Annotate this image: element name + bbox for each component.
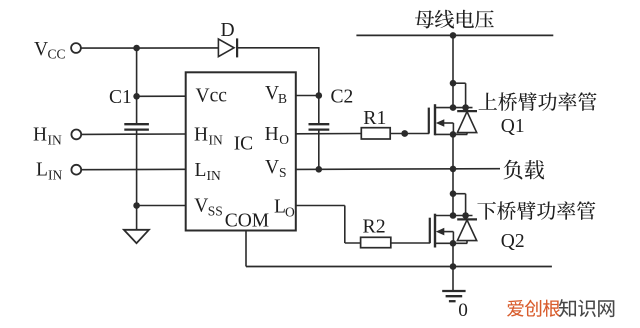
svg-text:R2: R2 (363, 215, 386, 237)
svg-text:L: L (195, 160, 207, 181)
svg-text:H: H (33, 125, 47, 146)
svg-text:R1: R1 (363, 107, 386, 129)
svg-text:V: V (265, 157, 279, 178)
svg-text:L: L (36, 160, 48, 181)
wire IC COM pin to ground rail (245, 231, 247, 267)
wire Q2 body-diode branch (453, 194, 466, 220)
label D (221, 20, 235, 41)
svg-text:IN: IN (209, 133, 223, 148)
svg-text:D: D (221, 20, 235, 41)
svg-text:H: H (265, 124, 279, 145)
label C1 (109, 87, 132, 108)
wire Q2 source to ground rail (452, 243, 454, 266)
wire IC VS pin to load (296, 168, 500, 171)
svg-text:IN: IN (207, 168, 221, 183)
wire C2 down to VS line (318, 130, 320, 170)
junction bus / Q1 drain (450, 32, 457, 39)
wire VB node down to C2 (318, 96, 320, 125)
wire VSS node to ground (136, 206, 138, 230)
terminal VCC (71, 43, 81, 53)
svg-text:O: O (285, 205, 295, 220)
pin label VSS (194, 196, 223, 219)
wire VSS node to IC (137, 205, 187, 207)
ground signal (triangle) (124, 230, 149, 243)
label C2 (331, 87, 354, 108)
wire bus to Q1 drain (452, 35, 454, 107)
pin label HO (265, 124, 290, 147)
label Q1 (501, 116, 525, 137)
svg-text:O: O (279, 132, 289, 147)
transistor Q1 (429, 104, 473, 135)
junction ground rail / Q2 source (450, 263, 457, 270)
svg-text:0: 0 (458, 300, 468, 321)
junction Q2 diode cathode node (462, 212, 469, 219)
label R1 (363, 107, 386, 129)
svg-text:V: V (265, 83, 279, 104)
pin label LO (274, 197, 295, 220)
pin label VS (265, 157, 287, 180)
wire HIN to IC (81, 133, 186, 135)
body diode of Q2 (457, 219, 477, 243)
junction Q1 source node (450, 131, 457, 138)
wire Q1 body-diode branch (453, 83, 466, 111)
svg-text:Vcc: Vcc (196, 85, 228, 106)
wire C1 down to VSS node (136, 130, 138, 206)
op-amp/driver IC body (186, 72, 296, 230)
svg-text:Q1: Q1 (501, 116, 525, 137)
pin label HIN (194, 125, 223, 148)
svg-text:IN: IN (48, 168, 62, 183)
svg-text:V: V (34, 39, 48, 60)
svg-text:CC: CC (48, 46, 66, 61)
wire R1 to Q1 gate (390, 133, 429, 135)
watermark aichuanggen (507, 300, 560, 317)
svg-text:IC: IC (234, 134, 254, 155)
junction R1 output node (401, 130, 408, 137)
junction Q1 diode cathode node (462, 104, 469, 111)
svg-text:Q2: Q2 (501, 231, 525, 252)
label bus voltage (415, 10, 494, 29)
wire IC LO pin to R2 (296, 206, 361, 244)
terminal HIN (71, 130, 81, 140)
wire rail to earth ground (452, 267, 454, 291)
wire DC bus (356, 34, 553, 36)
junction C1/Vcc pin node (133, 93, 140, 100)
wire VS to Q2 drain (452, 169, 454, 216)
wire R2 to Q2 gate (391, 242, 430, 244)
junction VS/half-bridge midpoint (450, 166, 457, 173)
svg-text:IN: IN (48, 133, 62, 148)
label VCC terminal (34, 39, 66, 61)
label R2 (363, 215, 386, 237)
body diode of Q1 (457, 111, 477, 134)
capacitor C1 (124, 124, 149, 129)
junction Q1 drain/body-diode branch (450, 80, 457, 87)
svg-text:B: B (278, 91, 287, 106)
watermark zhishiwang (559, 299, 615, 317)
wire ground rail (246, 266, 552, 268)
label Q1 transistor name (479, 92, 597, 111)
svg-text:SS: SS (208, 204, 223, 219)
pin label VB (265, 83, 287, 106)
junction Q1 drain node (450, 104, 457, 111)
label Q2 transistor name (477, 201, 595, 220)
junction Q2 drain node (450, 212, 457, 219)
wire diode cathode to VB node (237, 47, 319, 96)
resistor R2 (361, 237, 391, 247)
junction Q2 drain/body-diode branch (450, 190, 457, 197)
wire IC VB pin to bootstrap node (296, 95, 319, 97)
wire Q1 source to VS line (452, 134, 454, 169)
label HIN terminal (33, 125, 62, 148)
wire IC HO pin to R1 (296, 133, 362, 135)
junction Q2 source node (450, 240, 457, 247)
junction VSS node (133, 202, 140, 209)
svg-text:S: S (279, 165, 287, 180)
junction VB/C2 node (316, 92, 323, 99)
svg-text:COM: COM (225, 211, 269, 232)
svg-text:C1: C1 (109, 87, 132, 108)
wire VCC to diode anode (81, 47, 218, 49)
junction VS/C2 (316, 166, 323, 173)
label VS load line (504, 160, 545, 180)
svg-text:C2: C2 (331, 87, 354, 108)
terminal LIN (71, 165, 81, 175)
svg-text:H: H (194, 125, 208, 146)
wire LIN to IC (81, 168, 186, 170)
pin label Vcc (196, 85, 228, 106)
diode D (218, 38, 237, 57)
transistor Q2 (430, 214, 473, 248)
label Q2 (501, 231, 525, 252)
label LIN terminal (36, 160, 62, 183)
label IC (234, 134, 254, 155)
wire node to IC Vcc pin (137, 95, 187, 97)
label node 0 (458, 300, 468, 321)
pin label COM (225, 211, 269, 232)
ground earth symbol (442, 291, 465, 301)
svg-text:V: V (194, 196, 208, 217)
wire VCC node down to C1 (136, 48, 138, 124)
junction VCC/C1 node (133, 45, 140, 52)
pin label LIN (195, 160, 221, 183)
resistor R1 (361, 128, 390, 139)
capacitor C2 (309, 124, 330, 129)
